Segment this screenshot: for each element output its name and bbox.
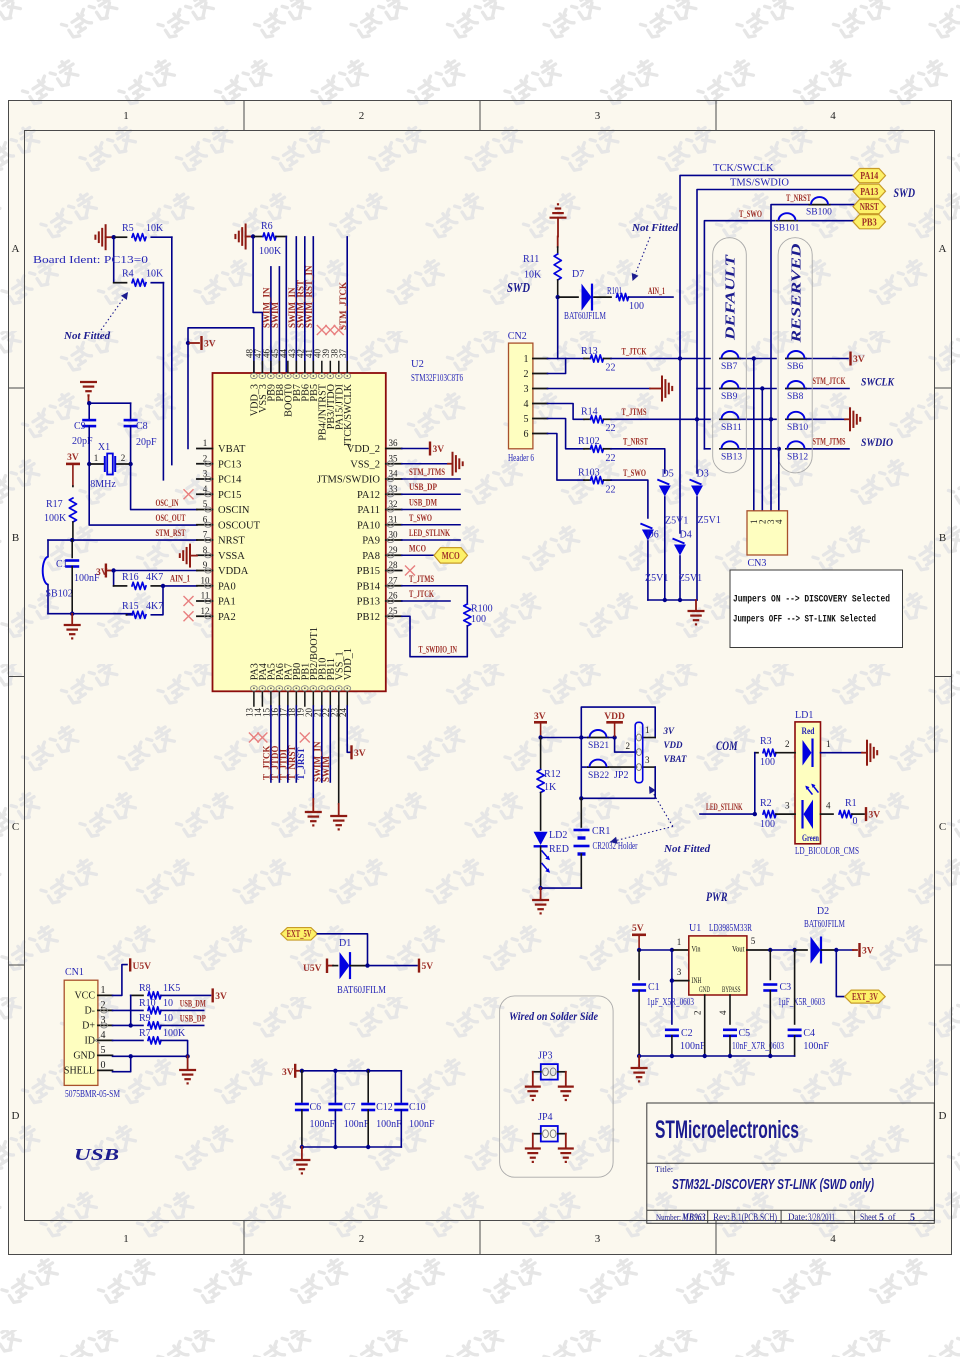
svg-text:SWIM: SWIM — [270, 301, 280, 328]
svg-text:JTMS/SWDIO: JTMS/SWDIO — [317, 475, 380, 486]
svg-text:SB22: SB22 — [588, 771, 609, 781]
svg-text:8MHz: 8MHz — [90, 479, 116, 490]
wire cap bank top rail — [302, 1070, 401, 1072]
svg-text:D4: D4 — [680, 530, 692, 541]
capacitor C4 — [794, 950, 796, 1024]
ground pwr rail — [638, 1056, 640, 1068]
node T_JTCK TCK — [678, 356, 682, 360]
wire R8 1K5 — [131, 994, 143, 996]
wire T_JTDO pin16 — [278, 706, 280, 782]
svg-text:5: 5 — [879, 1213, 884, 1224]
resistor R100 — [464, 604, 471, 626]
svg-text:1K: 1K — [544, 782, 557, 793]
svg-text:Rev:: Rev: — [713, 1212, 730, 1222]
svg-text:1: 1 — [645, 725, 650, 735]
svg-text:GND: GND — [73, 1050, 95, 1061]
node row4 CN3 — [777, 447, 781, 451]
capacitor C1 pwr — [638, 950, 640, 980]
wire SWIM_RST_IN pin41 — [312, 237, 314, 373]
wire T_NRST to D5 — [611, 449, 665, 473]
svg-text:D7: D7 — [572, 269, 584, 280]
wire SB22 row — [581, 766, 587, 768]
wire EXT_3V — [836, 950, 844, 997]
capacitor C12 — [367, 1071, 369, 1102]
annotation jumpers note — [730, 570, 903, 648]
svg-text:X1: X1 — [98, 442, 110, 453]
ground CN1 — [187, 1056, 189, 1070]
wire CN3 pin1 — [753, 359, 755, 511]
wire COM gnd rail — [541, 887, 582, 889]
wire R15 row — [127, 614, 133, 616]
jumper SB12 — [785, 448, 807, 450]
resistor R6 — [253, 236, 262, 238]
svg-text:R11: R11 — [523, 254, 539, 265]
svg-text:T_JRST: T_JRST — [296, 747, 306, 780]
svg-text:T_NRST: T_NRST — [786, 194, 811, 204]
svg-text:3V: 3V — [67, 453, 79, 463]
wire CN2 pin4 jog — [548, 404, 585, 420]
svg-text:Title:: Title: — [655, 1164, 673, 1174]
svg-text:VDD: VDD — [604, 712, 625, 722]
svg-text:SWD: SWD — [507, 281, 530, 296]
svg-text:PA10: PA10 — [357, 520, 380, 531]
svg-text:1: 1 — [826, 739, 831, 749]
ground rail earth — [71, 614, 73, 625]
resistor R1 — [839, 811, 852, 818]
zener D6 — [642, 530, 654, 541]
capacitor C9 — [82, 419, 96, 422]
node SWD D7 — [556, 295, 560, 299]
wire row1 right — [680, 358, 710, 360]
wire INH — [672, 980, 689, 982]
node X1 top — [87, 401, 91, 405]
diode D7 — [582, 284, 592, 311]
wire C2 column — [671, 950, 673, 1024]
jumper SB101 — [776, 220, 798, 222]
svg-text:10: 10 — [163, 998, 173, 1009]
svg-text:BAT60JFILM: BAT60JFILM — [337, 985, 386, 996]
svg-text:R5: R5 — [122, 223, 134, 234]
svg-text:22: 22 — [606, 423, 616, 434]
wire TMS/SWDIO — [697, 190, 855, 420]
wire USB_DM — [402, 509, 460, 511]
svg-text:C10: C10 — [409, 1102, 426, 1113]
svg-text:20pF: 20pF — [136, 437, 157, 448]
svg-text:R16: R16 — [122, 572, 139, 583]
svg-text:Vin: Vin — [692, 944, 702, 954]
svg-text:100K: 100K — [259, 246, 282, 257]
svg-text:PA12: PA12 — [357, 490, 380, 501]
resistor R11 — [557, 237, 559, 248]
svg-text:ID: ID — [84, 1035, 95, 1046]
svg-text:D3: D3 — [697, 468, 709, 479]
svg-text:4: 4 — [826, 801, 831, 811]
wire Vout — [747, 949, 770, 951]
svg-text:5: 5 — [101, 1045, 106, 1056]
wire USB_DM row — [113, 1009, 144, 1011]
svg-text:2: 2 — [121, 453, 126, 463]
svg-text:C12: C12 — [376, 1102, 393, 1113]
svg-text:3V: 3V — [282, 1068, 294, 1078]
svg-text:R4: R4 — [122, 269, 134, 280]
wire R4 branch vertical — [113, 237, 115, 283]
svg-text:CN1: CN1 — [65, 967, 84, 978]
wire JP3 left gnd — [533, 1071, 541, 1073]
resistor R15 — [132, 611, 146, 618]
wire AIN_1 right — [629, 296, 673, 298]
node row1 CN3 — [752, 356, 756, 360]
ground COM — [540, 888, 542, 900]
wire GND pin2 — [704, 995, 706, 1056]
resistor R5 — [132, 234, 146, 241]
svg-text:4: 4 — [774, 519, 784, 524]
wire OSC_IN — [131, 464, 197, 510]
diode D1 — [333, 965, 338, 967]
zener D5 — [659, 486, 671, 497]
svg-text:PA14: PA14 — [860, 171, 879, 182]
resistor R101 — [617, 294, 629, 301]
svg-text:PA8: PA8 — [362, 551, 380, 562]
svg-text:USB_DP: USB_DP — [409, 483, 437, 493]
svg-text:Jumpers OFF --> ST-LINK Select: Jumpers OFF --> ST-LINK Selected — [733, 614, 876, 626]
svg-text:3V: 3V — [663, 726, 676, 736]
port NRST tag — [853, 200, 886, 214]
svg-text:INH: INH — [692, 975, 702, 985]
svg-text:C1: C1 — [648, 982, 660, 993]
svg-text:SHELL: SHELL — [64, 1065, 95, 1076]
svg-text:SB101: SB101 — [774, 224, 800, 234]
svg-text:SWDIO: SWDIO — [861, 437, 893, 449]
svg-text:PA13: PA13 — [860, 187, 878, 198]
svg-text:STM32L-DISCOVERY ST-LINK (SWD: STM32L-DISCOVERY ST-LINK (SWD only) — [672, 1176, 874, 1193]
svg-text:TCK/SWCLK: TCK/SWCLK — [713, 163, 774, 174]
ic U2 bottom pins — [253, 691, 255, 706]
wire R5 row — [114, 236, 127, 238]
node VDDA 3V — [111, 568, 115, 572]
svg-text:1: 1 — [203, 438, 208, 448]
svg-text:36: 36 — [389, 438, 399, 448]
svg-text:5V: 5V — [632, 924, 644, 934]
svg-text:B: B — [939, 532, 946, 544]
svg-text:Header 6: Header 6 — [508, 453, 534, 464]
svg-text:4: 4 — [830, 110, 836, 122]
port MCO tag — [434, 548, 468, 564]
svg-text:C2: C2 — [681, 1028, 693, 1039]
wire CN2 pin3 gnd — [548, 388, 651, 390]
power 3V VDD_2 — [402, 448, 428, 450]
svg-text:3V: 3V — [853, 355, 865, 365]
svg-text:AIN_1: AIN_1 — [648, 287, 665, 297]
svg-text:22: 22 — [606, 484, 616, 495]
svg-text:CN3: CN3 — [748, 558, 767, 569]
wire COM top rail — [541, 737, 582, 739]
wire JP2 pin3 loop down — [581, 767, 655, 798]
svg-text:R17: R17 — [46, 499, 63, 510]
svg-text:3V: 3V — [204, 340, 216, 350]
svg-text:3V: 3V — [862, 947, 874, 957]
svg-text:2: 2 — [359, 110, 365, 122]
connector CN1 body — [64, 980, 98, 1085]
wire TCK/SWCLK — [680, 175, 855, 358]
svg-text:100nF: 100nF — [803, 1041, 829, 1052]
svg-text:3V: 3V — [534, 712, 546, 722]
annotation RESERVED capsule — [778, 238, 812, 473]
svg-text:PB12: PB12 — [357, 612, 380, 623]
wire CN3 pin3 — [770, 419, 772, 511]
svg-text:GND: GND — [699, 985, 710, 994]
svg-text:Wired on Solder Side: Wired on Solder Side — [509, 1011, 598, 1023]
svg-text:LED_STLINK: LED_STLINK — [409, 529, 450, 539]
svg-text:AIN_1: AIN_1 — [170, 575, 190, 585]
wire VSS_3 gnd jog — [253, 237, 262, 374]
svg-text:A: A — [939, 243, 947, 255]
connector CN1 pins — [98, 994, 113, 996]
wire 3V to R16 — [113, 571, 115, 586]
ground LD1 sideways — [866, 740, 868, 766]
svg-text:C8: C8 — [136, 421, 148, 432]
svg-text:T_JTCK: T_JTCK — [409, 590, 434, 600]
wire R3 row — [755, 752, 758, 754]
crystal X1 — [104, 456, 106, 472]
wire JP4 left gnd — [533, 1133, 541, 1135]
wire SWIM_RST pin42 — [304, 237, 306, 373]
svg-text:2: 2 — [785, 739, 790, 749]
svg-text:NRST: NRST — [218, 536, 245, 547]
svg-text:D2: D2 — [817, 906, 829, 917]
svg-text:100nF: 100nF — [680, 1041, 706, 1052]
jumper SB21 — [581, 737, 587, 739]
svg-text:4K7: 4K7 — [146, 572, 163, 583]
wire JP4 right gnd — [558, 1133, 566, 1135]
svg-text:STM_RST: STM_RST — [156, 529, 186, 539]
svg-text:3: 3 — [785, 801, 790, 811]
wire VSS pin20 to gnd — [312, 706, 314, 799]
svg-text:SWIM: SWIM — [321, 755, 331, 782]
svg-text:SWIM_RST_IN: SWIM_RST_IN — [304, 265, 314, 328]
resistor R3 — [763, 749, 776, 756]
svg-text:OSCIN: OSCIN — [218, 505, 250, 516]
wire STM_JTMS pin34 — [402, 478, 460, 480]
power 3V U2 — [186, 341, 190, 345]
jumper SB100 — [809, 204, 831, 206]
svg-text:Board Ident: PC13=0: Board Ident: PC13=0 — [33, 254, 149, 266]
svg-text:OSCOUT: OSCOUT — [218, 520, 261, 531]
battery CR1 — [580, 798, 582, 827]
wire AIN_1 — [151, 585, 163, 587]
zener D3 wire — [696, 419, 698, 473]
wire cap bank bottom rail — [302, 1146, 401, 1148]
svg-text:C4: C4 — [803, 1028, 815, 1039]
svg-text:R13: R13 — [581, 346, 598, 357]
svg-text:D+: D+ — [82, 1020, 95, 1031]
capacitor C6 — [301, 1071, 303, 1102]
svg-text:R6: R6 — [261, 221, 273, 232]
wire T_SWO pin31 — [402, 524, 460, 526]
svg-text:VBAT: VBAT — [664, 754, 688, 764]
wire VSS_1 gnd — [338, 706, 340, 804]
svg-text:100: 100 — [629, 301, 644, 312]
wire T_NRST top — [771, 205, 808, 420]
svg-text:2: 2 — [524, 369, 529, 380]
node 5V rail — [637, 948, 641, 952]
svg-text:D-: D- — [84, 1005, 95, 1016]
wire T_JTDI pin17 — [287, 706, 289, 782]
resistor R14 — [584, 418, 591, 420]
svg-text:Z5V1: Z5V1 — [698, 515, 721, 526]
wire crystal row — [88, 426, 90, 464]
resistor R2 — [763, 811, 776, 818]
svg-text:1: 1 — [123, 110, 129, 122]
svg-text:SB21: SB21 — [588, 741, 609, 751]
ground zener rail — [695, 600, 697, 611]
ic U2 body — [213, 373, 386, 691]
ground GND sideways near R5 — [105, 224, 107, 250]
no-connect X pin19 — [300, 733, 309, 742]
wire row4 SB13 SB12 — [704, 448, 710, 450]
wire CN2 pin6 jog — [548, 434, 585, 481]
wire BYPASS pin4 — [729, 995, 731, 1024]
svg-text:C5: C5 — [739, 1028, 751, 1039]
wire VDD to JP2 pin2 — [615, 738, 637, 753]
wire CN2 pin2 join — [548, 359, 566, 374]
svg-text:100: 100 — [760, 757, 775, 768]
svg-text:STM_JTMS: STM_JTMS — [813, 438, 846, 448]
wire STM_JTCK pin37 — [346, 237, 348, 373]
wire LD2 to gnd — [540, 846, 542, 888]
svg-text:U5V: U5V — [303, 964, 322, 974]
svg-text:4: 4 — [101, 1030, 106, 1041]
wire T_SWO to D6 — [611, 480, 648, 518]
svg-text:3V: 3V — [354, 749, 366, 759]
svg-text:VBAT: VBAT — [218, 444, 246, 455]
svg-text:OSC_IN: OSC_IN — [156, 499, 179, 509]
svg-text:JP2: JP2 — [614, 770, 628, 781]
svg-text:R103: R103 — [578, 468, 600, 479]
wire LD1 pin4 — [821, 813, 834, 815]
wire SB22 left vertical — [580, 738, 582, 768]
svg-text:LD2: LD2 — [549, 830, 567, 841]
svg-text:T_JTMS: T_JTMS — [409, 575, 434, 585]
jumper SB11 — [719, 418, 741, 420]
ic U2 top pins — [253, 362, 255, 374]
svg-text:D1: D1 — [339, 938, 351, 949]
svg-text:100nF: 100nF — [409, 1119, 435, 1130]
capacitor C2 — [665, 1029, 679, 1032]
wire VDDA — [114, 570, 197, 572]
capacitor C8 — [124, 419, 138, 422]
svg-text:3V: 3V — [869, 811, 881, 821]
svg-text:SB7: SB7 — [721, 362, 738, 372]
svg-text:NRST: NRST — [860, 202, 879, 213]
svg-text:4K7: 4K7 — [146, 601, 163, 612]
wire STM_RST row — [48, 539, 197, 541]
svg-text:LD_BICOLOR_CMS: LD_BICOLOR_CMS — [795, 846, 859, 857]
svg-text:JP4: JP4 — [538, 1112, 552, 1123]
svg-text:U2: U2 — [411, 359, 424, 370]
resistor R102 — [584, 448, 591, 450]
svg-text:RESERVED: RESERVED — [789, 243, 804, 344]
capacitor C7 — [334, 1071, 336, 1102]
svg-text:Green: Green — [802, 833, 819, 843]
svg-text:2: 2 — [693, 1011, 703, 1016]
svg-text:1µF_X5R_0603: 1µF_X5R_0603 — [778, 997, 825, 1008]
svg-text:6: 6 — [524, 429, 529, 440]
led LD1 body — [795, 722, 821, 844]
svg-text:T_JTCK: T_JTCK — [622, 348, 647, 358]
svg-text:100: 100 — [471, 614, 486, 625]
svg-text:VDD_1: VDD_1 — [343, 648, 354, 680]
ic U2 right pins — [386, 448, 402, 450]
svg-text:10K: 10K — [524, 270, 542, 281]
svg-text:22: 22 — [606, 453, 616, 464]
wire T_JTCK pin15 — [270, 706, 272, 782]
svg-text:PC14: PC14 — [218, 475, 242, 486]
power 3V row1 — [807, 358, 848, 360]
svg-text:3: 3 — [595, 1233, 601, 1245]
resistor R16 — [132, 582, 146, 589]
capacitor C3 — [769, 950, 771, 980]
port PA14 tag — [853, 169, 886, 183]
svg-text:100nF: 100nF — [344, 1119, 370, 1130]
power 3V D2 — [836, 949, 853, 951]
svg-text:10K: 10K — [146, 223, 164, 234]
svg-text:SWD: SWD — [894, 186, 916, 200]
svg-text:A: A — [12, 243, 20, 255]
jumper SB10 — [785, 418, 807, 420]
svg-text:OSC_OUT: OSC_OUT — [156, 514, 186, 524]
svg-text:PB14: PB14 — [357, 581, 381, 592]
svg-text:D: D — [939, 1110, 947, 1122]
wire T_SWO top — [704, 221, 775, 449]
svg-text:COM: COM — [716, 738, 738, 753]
svg-text:D5: D5 — [662, 468, 674, 479]
svg-text:JP3: JP3 — [538, 1050, 552, 1061]
ground R11 top — [550, 217, 567, 219]
svg-text:Number:: Number: — [656, 1212, 681, 1222]
svg-text:BAT60JFILM: BAT60JFILM — [564, 311, 606, 322]
node row3 CN3 — [769, 417, 773, 421]
wire T_JTMS pin27 — [402, 586, 468, 603]
svg-text:SB13: SB13 — [721, 452, 742, 462]
svg-text:1µF_X5R_0603: 1µF_X5R_0603 — [647, 997, 694, 1008]
svg-text:Not Fitted: Not Fitted — [663, 843, 711, 855]
svg-text:SB11: SB11 — [721, 423, 742, 433]
wire R4 to PC14 vertical — [162, 283, 164, 480]
svg-text:100: 100 — [760, 819, 775, 830]
svg-text:100K: 100K — [44, 513, 67, 524]
svg-text:T_NRST: T_NRST — [623, 438, 648, 448]
wire R5 to PC13 vertical — [171, 237, 173, 464]
svg-text:Z5V1: Z5V1 — [645, 573, 668, 584]
resistor R17 — [72, 485, 74, 488]
svg-text:VDDA: VDDA — [218, 566, 249, 577]
resistor R13 — [584, 358, 591, 360]
svg-text:10nF_X7R_0603: 10nF_X7R_0603 — [732, 1041, 784, 1052]
wire CN2 pin5 jog — [548, 419, 585, 449]
svg-text:1: 1 — [524, 354, 529, 365]
svg-text:STM_JTCK: STM_JTCK — [813, 377, 846, 387]
svg-text:VCC: VCC — [74, 990, 95, 1001]
svg-text:R101: R101 — [607, 286, 622, 297]
resistor R7 — [148, 1037, 161, 1044]
port EXT_3V tag — [845, 990, 886, 1003]
wire EXT_5V to D1 — [317, 934, 367, 966]
no-connect X pins 40 39 38 — [317, 326, 326, 335]
svg-text:R7: R7 — [139, 1028, 151, 1039]
svg-text:PA11: PA11 — [357, 505, 380, 516]
svg-text:T_SWO: T_SWO — [409, 514, 432, 524]
svg-text:3V: 3V — [215, 992, 227, 1002]
